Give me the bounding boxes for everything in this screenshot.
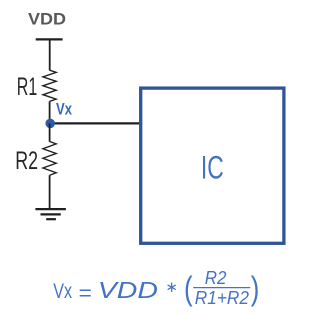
IC U1 box [141,88,284,243]
wire R2 to ground [49,175,51,209]
svg-text:Vx: Vx [53,279,72,303]
formula: fraction bar [193,287,250,289]
svg-text:Vx: Vx [56,100,72,119]
wire node Vx to R2 [49,123,51,141]
svg-text:VDD: VDD [98,277,158,303]
svg-text:VDD: VDD [28,9,66,28]
svg-text:R1: R1 [17,73,38,101]
svg-text:(: ( [184,269,193,306]
svg-text:): ) [251,269,260,306]
svg-text:R2: R2 [15,147,38,175]
svg-text:IC: IC [201,149,224,185]
resistor R2 [43,142,56,176]
svg-text:∗: ∗ [165,279,178,296]
svg-text:R1+R2: R1+R2 [195,287,250,308]
ground [35,209,66,219]
power rail VDD symbol [36,38,63,40]
wire R1 to node Vx [49,101,51,123]
svg-text:R2: R2 [205,267,227,288]
resistor R1 [43,70,56,101]
wire node Vx to IC [50,122,140,124]
junction node Vx (dot) [45,119,55,129]
svg-text:=: = [79,281,92,305]
wire VDD rail to R1 [49,39,51,70]
